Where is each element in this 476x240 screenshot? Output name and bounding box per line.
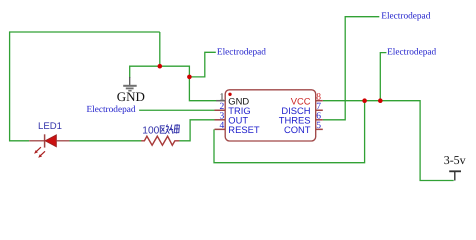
pin 1 indicator dot (228, 93, 231, 96)
op-amp U1 body (555 timer IC) (225, 90, 316, 141)
wire (189, 52, 215, 77)
glyph 欧 (160, 125, 169, 134)
svg-text:Electrodepad: Electrodepad (387, 48, 436, 58)
svg-text:8: 8 (316, 92, 321, 102)
svg-text:5: 5 (316, 121, 321, 131)
ground (123, 77, 137, 91)
svg-text:Electrodepad: Electrodepad (381, 12, 430, 22)
svg-text:7: 7 (316, 102, 321, 112)
wire (323, 101, 454, 181)
LED D1 emission arrow 1 (34, 147, 41, 154)
wire (380, 53, 386, 101)
label 100欧姆 (142, 124, 179, 136)
svg-text:6: 6 (316, 112, 321, 122)
pin 5 stub (316, 128, 323, 130)
junction (378, 98, 383, 103)
LED D1 triangle (45, 135, 56, 147)
LED D1 cathode bar (44, 134, 46, 147)
junction (187, 75, 192, 80)
svg-text:RESET: RESET (228, 124, 260, 135)
wire (70, 140, 142, 142)
svg-text:100: 100 (142, 125, 159, 136)
pin 7 stub (316, 109, 323, 111)
svg-text:1: 1 (219, 92, 224, 102)
pin 4 stub (215, 128, 226, 130)
svg-text:Electrodepad: Electrodepad (86, 105, 135, 115)
svg-text:CONT: CONT (284, 124, 311, 135)
battery terminal symbol (449, 171, 461, 180)
svg-text:GND: GND (117, 89, 145, 104)
junction (158, 64, 163, 69)
svg-text:2: 2 (219, 102, 224, 112)
pin 2 stub (215, 109, 226, 111)
wire (214, 101, 365, 163)
wire (129, 66, 131, 79)
pin 1 stub (216, 100, 225, 102)
wire (179, 120, 214, 141)
wire (323, 17, 380, 120)
svg-text:LED1: LED1 (38, 121, 62, 132)
svg-text:4: 4 (219, 121, 224, 131)
resistor R1 (141, 136, 179, 145)
pin 6 stub (316, 119, 323, 121)
glyph 姆 (169, 124, 179, 134)
svg-text:Electrodepad: Electrodepad (217, 47, 266, 57)
wire (10, 32, 160, 141)
junction (362, 98, 367, 103)
LED D1 cathode lead (56, 140, 69, 142)
wire (159, 32, 161, 66)
pin 3 stub (215, 119, 226, 121)
wire (139, 109, 214, 111)
svg-text:3-5v: 3-5v (444, 153, 466, 167)
wire (189, 66, 216, 101)
pin 8 stub (316, 100, 323, 102)
LED D1 anode lead (29, 140, 44, 142)
svg-text:3: 3 (219, 112, 224, 122)
wire (130, 65, 190, 67)
LED D1 emission arrow 2 (38, 151, 45, 158)
